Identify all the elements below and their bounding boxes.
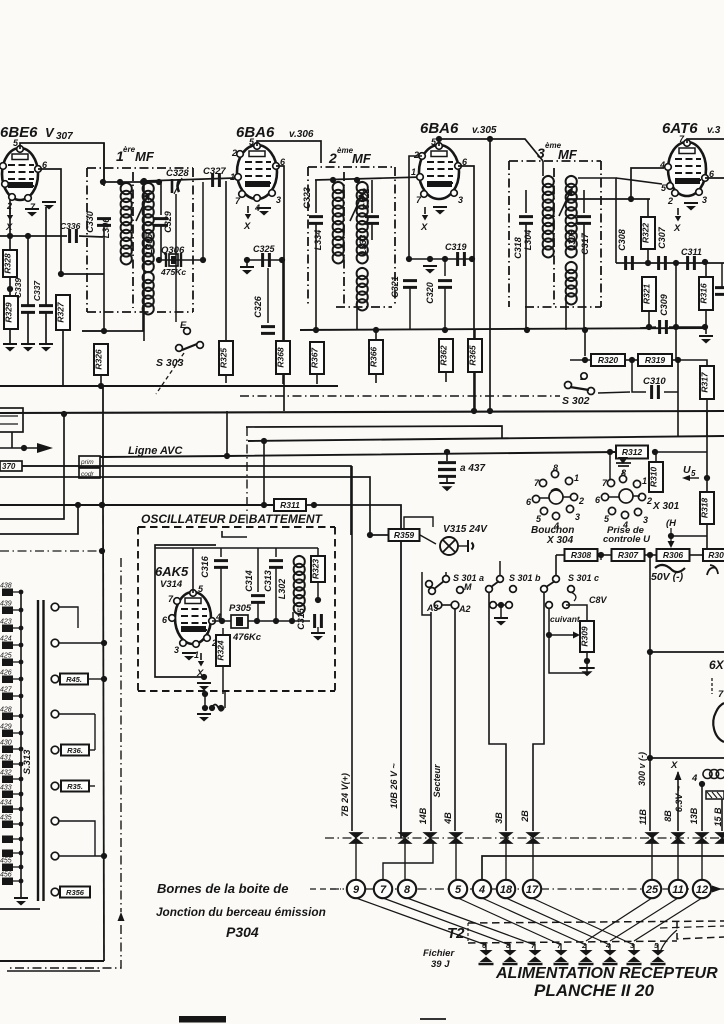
resistor R359 bbox=[389, 529, 420, 541]
AVC arrow bbox=[0, 447, 37, 449]
resistor R356 bbox=[60, 887, 90, 898]
squiggle right bbox=[707, 565, 718, 575]
resistor R322 bbox=[641, 217, 655, 249]
svg-text:V: V bbox=[45, 125, 55, 140]
svg-text:2: 2 bbox=[667, 196, 673, 206]
svg-text:(H: (H bbox=[666, 518, 677, 529]
corner bracket bbox=[222, 531, 247, 537]
svg-text:R367: R367 bbox=[310, 347, 320, 369]
svg-text:7B 24 V(+): 7B 24 V(+) bbox=[340, 773, 350, 817]
ground bbox=[3, 343, 17, 345]
bottom-left bracket bbox=[0, 960, 104, 962]
T2 pin 8 bbox=[504, 950, 517, 962]
ladder component 433 bbox=[2, 791, 13, 799]
svg-text:codr: codr bbox=[81, 471, 94, 478]
wire input y236 bbox=[0, 235, 67, 237]
svg-text:431: 431 bbox=[0, 755, 12, 762]
svg-text:14B: 14B bbox=[418, 807, 428, 824]
svg-text:1: 1 bbox=[574, 473, 579, 483]
svg-text:cuivant: cuivant bbox=[550, 614, 581, 624]
svg-text:X 301: X 301 bbox=[652, 501, 680, 512]
svg-text:3: 3 bbox=[702, 195, 707, 205]
svg-text:2: 2 bbox=[413, 150, 419, 160]
IF transformer MF3 shield box bbox=[508, 161, 510, 307]
terminal bowtie 14B bbox=[424, 833, 437, 844]
wire Prise feed bbox=[609, 519, 611, 549]
svg-text:A2: A2 bbox=[458, 604, 471, 614]
wire bus y438 bbox=[248, 436, 724, 441]
wire 11B vertical bbox=[649, 555, 651, 831]
ground bbox=[14, 897, 28, 899]
resistor R310 bbox=[649, 462, 663, 492]
ladder component 428 bbox=[2, 713, 13, 721]
svg-text:v.305: v.305 bbox=[472, 125, 497, 136]
capacitor C339 bbox=[27, 236, 29, 305]
connector right dashed box bbox=[677, 921, 724, 939]
svg-text:a 437: a 437 bbox=[460, 463, 485, 474]
svg-text:MF: MF bbox=[135, 149, 155, 164]
wire MF1 top inner bbox=[103, 181, 159, 183]
svg-text:controle U: controle U bbox=[603, 534, 651, 545]
MF1 lower winding bbox=[143, 272, 154, 314]
tube V305 pins bbox=[436, 143, 443, 150]
svg-text:R310: R310 bbox=[649, 467, 659, 488]
svg-text:X 304: X 304 bbox=[546, 535, 574, 546]
svg-text:R35.: R35. bbox=[67, 782, 83, 791]
MF2 tertiary winding bbox=[357, 268, 368, 310]
svg-text:6X: 6X bbox=[709, 658, 724, 672]
svg-text:3: 3 bbox=[537, 145, 545, 161]
svg-text:432: 432 bbox=[0, 770, 12, 777]
terminal bowtie 3B bbox=[500, 833, 513, 844]
svg-text:R311: R311 bbox=[280, 500, 300, 510]
svg-text:C317: C317 bbox=[580, 232, 590, 255]
MF3 secondary coil L303 bbox=[566, 176, 577, 257]
oscillator dashed box bbox=[137, 527, 139, 691]
svg-text:R366: R366 bbox=[369, 347, 379, 368]
wire 15B vertical bbox=[721, 799, 723, 831]
resistor R327 bbox=[56, 295, 70, 330]
svg-text:R320: R320 bbox=[598, 355, 619, 365]
svg-text:R322: R322 bbox=[641, 223, 651, 244]
svg-text:X: X bbox=[670, 760, 678, 771]
resistor R324 bbox=[216, 635, 230, 666]
ladder component 456 bbox=[2, 878, 13, 886]
S301a box outline bbox=[422, 572, 431, 615]
svg-text:R362: R362 bbox=[439, 345, 449, 366]
svg-text:3: 3 bbox=[575, 512, 580, 522]
svg-text:439: 439 bbox=[0, 601, 12, 608]
resistor R306 bbox=[657, 549, 690, 561]
svg-text:L303: L303 bbox=[567, 230, 577, 251]
wire 14B vertical bbox=[430, 612, 432, 831]
terminal circle 25 bbox=[643, 880, 661, 898]
wire 2B vertical bbox=[533, 593, 544, 831]
svg-text:X: X bbox=[673, 223, 681, 234]
dash-dot x247 bbox=[246, 427, 248, 527]
svg-text:433: 433 bbox=[0, 785, 12, 792]
left bus vertical x104 bbox=[102, 386, 104, 505]
wire R308 left feed bbox=[556, 554, 565, 556]
chassis X arrow bbox=[424, 207, 426, 214]
svg-text:R368: R368 bbox=[276, 347, 286, 368]
svg-text:MF: MF bbox=[558, 147, 578, 162]
svg-text:PLANCHE II 20: PLANCHE II 20 bbox=[534, 981, 655, 1000]
wire R309 bottom bbox=[549, 609, 578, 635]
wire left corner x64 bbox=[0, 414, 64, 519]
terminal circle 17 bbox=[523, 880, 541, 898]
terminal bowtie 11B bbox=[646, 833, 659, 844]
svg-text:C322: C322 bbox=[361, 188, 371, 210]
terminal bowtie 15B bbox=[716, 833, 724, 844]
chassis X arrow bbox=[9, 207, 11, 214]
svg-text:C319: C319 bbox=[445, 242, 467, 252]
wire MF3 secondary to 6AT6 bbox=[566, 198, 650, 200]
wire 7B vertical bbox=[351, 466, 353, 831]
svg-text:R321: R321 bbox=[642, 284, 652, 305]
terminal circle 4 bbox=[473, 880, 491, 898]
resistor R317 bbox=[700, 366, 714, 399]
ground bbox=[423, 265, 437, 267]
svg-text:Jonction du berceau émission: Jonction du berceau émission bbox=[156, 905, 326, 919]
svg-text:4: 4 bbox=[691, 773, 698, 784]
resistor R309 bbox=[580, 621, 594, 652]
svg-text:11B: 11B bbox=[638, 809, 648, 825]
svg-text:X: X bbox=[5, 222, 13, 233]
svg-text:6BE6: 6BE6 bbox=[0, 124, 38, 141]
ground bbox=[197, 713, 211, 715]
resistor R323 bbox=[311, 556, 325, 582]
resistor R318 bbox=[700, 492, 714, 524]
svg-text:438: 438 bbox=[0, 583, 12, 590]
ground bbox=[21, 343, 35, 345]
connector T2 dashed outline bbox=[468, 921, 724, 923]
resistor R45. bbox=[60, 674, 88, 685]
wire bornes dashes bbox=[310, 888, 341, 890]
svg-text:C321: C321 bbox=[390, 276, 400, 298]
chassis X arrow bbox=[677, 208, 679, 215]
connector bowtie row dash-dot bbox=[325, 837, 724, 839]
wire 13B vertical bbox=[701, 784, 703, 831]
svg-text:L302: L302 bbox=[277, 579, 287, 600]
IF transformer MF1 shield box bbox=[87, 167, 193, 169]
svg-text:L333: L333 bbox=[358, 235, 368, 256]
svg-text:13B: 13B bbox=[689, 807, 699, 824]
wire V307 pin6 down bbox=[38, 169, 61, 274]
terminal bowtie 10B bbox=[399, 833, 412, 844]
svg-text:R45.: R45. bbox=[66, 675, 82, 684]
left edge component box bbox=[0, 408, 23, 432]
svg-text:2: 2 bbox=[6, 201, 12, 211]
shield dash-dot vertical bbox=[120, 558, 122, 912]
ladder component 427 bbox=[2, 693, 13, 701]
svg-text:6.3V ~: 6.3V ~ bbox=[674, 785, 684, 812]
wire long bus y386 bbox=[0, 385, 338, 387]
wire R312 branch bbox=[607, 449, 613, 455]
capacitor a437 bbox=[444, 449, 450, 455]
wire bowtie-to-circle stubs bbox=[355, 843, 357, 880]
svg-text:476Kc: 476Kc bbox=[232, 632, 262, 643]
resistor R326 bbox=[94, 344, 108, 375]
chassis X arrow bbox=[200, 653, 202, 660]
svg-text:12: 12 bbox=[696, 884, 708, 896]
resistor R367 bbox=[310, 342, 324, 374]
svg-text:OSCILLATEUR DE BATTEMENT: OSCILLATEUR DE BATTEMENT bbox=[141, 512, 324, 526]
svg-text:ère: ère bbox=[123, 145, 136, 154]
resistor R309 bbox=[566, 605, 587, 621]
svg-text:R324: R324 bbox=[216, 640, 226, 661]
wire dash-dot chassis y396 bbox=[240, 395, 560, 397]
resistor R321 bbox=[642, 277, 656, 311]
wire circle4 riser and y856 line bbox=[482, 856, 724, 880]
MF1 secondary coil L305 bbox=[143, 183, 154, 272]
svg-text:L304: L304 bbox=[523, 230, 533, 251]
svg-text:R36.: R36. bbox=[67, 746, 83, 755]
terminal circle 8 bbox=[398, 880, 416, 898]
svg-text:307: 307 bbox=[56, 131, 73, 142]
ladder component 430 bbox=[2, 746, 13, 754]
svg-text:3: 3 bbox=[174, 645, 179, 655]
T2 pin 5 bbox=[652, 950, 665, 962]
svg-text:7: 7 bbox=[718, 689, 724, 700]
resistor R362 bbox=[439, 339, 453, 372]
ground bbox=[684, 202, 698, 204]
wire V306 pin5 top bbox=[257, 141, 321, 163]
svg-text:456: 456 bbox=[0, 872, 12, 879]
tube V314 6AK5 envelope bbox=[175, 592, 211, 644]
svg-text:R319: R319 bbox=[645, 355, 666, 365]
svg-text:6AK5: 6AK5 bbox=[155, 564, 189, 579]
svg-text:1: 1 bbox=[642, 476, 647, 486]
wire MF3 to diode bbox=[578, 178, 616, 263]
resistor R311 bbox=[274, 499, 306, 511]
svg-text:C309: C309 bbox=[659, 294, 669, 316]
svg-text:4: 4 bbox=[478, 884, 485, 896]
svg-text:430: 430 bbox=[0, 740, 12, 747]
svg-text:425: 425 bbox=[0, 653, 12, 660]
resistor R366 bbox=[369, 340, 383, 374]
terminal bowtie 4B bbox=[450, 833, 463, 844]
T2 pin 7 bbox=[555, 950, 568, 962]
ground bbox=[433, 206, 447, 208]
tube 6AT6 pins bbox=[684, 140, 691, 147]
resistor R328 branch bbox=[9, 236, 11, 250]
oscillator output curl bbox=[202, 691, 208, 697]
svg-text:Secteur: Secteur bbox=[432, 764, 442, 798]
resistor R359 with arrow bbox=[403, 521, 405, 529]
ladder component 429 bbox=[2, 730, 13, 738]
T2 pin 7 bbox=[529, 950, 542, 962]
svg-text:R312: R312 bbox=[622, 447, 643, 457]
svg-text:prim: prim bbox=[80, 459, 94, 466]
MF3 tertiary winding bbox=[566, 262, 577, 304]
svg-text:429: 429 bbox=[0, 724, 12, 731]
S313 wiring bbox=[59, 607, 78, 628]
resistor R325 bbox=[219, 341, 233, 375]
ground bbox=[579, 667, 594, 669]
ladder component row bbox=[2, 850, 13, 858]
svg-text:C310: C310 bbox=[643, 376, 666, 387]
MF2 secondary coil L333 bbox=[357, 182, 368, 263]
svg-text:R356: R356 bbox=[66, 888, 85, 897]
wire bus y330 bbox=[82, 330, 144, 332]
svg-text:2: 2 bbox=[231, 148, 237, 158]
resistor R327 bbox=[61, 273, 104, 275]
svg-text:S 302: S 302 bbox=[562, 395, 590, 407]
svg-text:427: 427 bbox=[0, 687, 13, 694]
svg-text:S 301 b: S 301 b bbox=[509, 573, 541, 583]
svg-text:300 v (-): 300 v (-) bbox=[637, 752, 647, 786]
transformer T winding bbox=[703, 769, 724, 778]
svg-text:C325: C325 bbox=[253, 244, 276, 254]
svg-text:R317: R317 bbox=[700, 371, 710, 393]
T2 pin 2 bbox=[580, 950, 593, 962]
svg-text:426: 426 bbox=[0, 670, 12, 677]
resistor R368 bbox=[276, 341, 290, 374]
resistor R36. bbox=[61, 745, 89, 756]
svg-text:R308: R308 bbox=[571, 550, 592, 560]
wire heater line B bbox=[0, 477, 389, 535]
terminal circle 9 bbox=[347, 880, 365, 898]
ladder component 434 bbox=[2, 806, 13, 814]
ground bbox=[39, 343, 53, 345]
connector Bouchon X304 bbox=[539, 479, 546, 486]
svg-text:2: 2 bbox=[578, 496, 584, 506]
contacts A3 A2 bbox=[434, 601, 442, 609]
svg-text:17: 17 bbox=[526, 884, 539, 896]
svg-text:C314: C314 bbox=[244, 570, 254, 592]
svg-text:424: 424 bbox=[0, 636, 12, 643]
resistor R320 bbox=[591, 354, 625, 366]
svg-text:8: 8 bbox=[404, 884, 411, 896]
svg-text:5: 5 bbox=[691, 469, 696, 478]
wire MF2 grid line bbox=[315, 177, 422, 180]
svg-text:M: M bbox=[464, 582, 472, 592]
wire diode line y263 bbox=[616, 262, 724, 264]
svg-text:P305: P305 bbox=[229, 603, 252, 614]
wire 6AT6 pin7 top bbox=[687, 139, 724, 143]
ladder component 435 bbox=[2, 821, 13, 829]
svg-text:C337: C337 bbox=[32, 280, 42, 302]
svg-text:R316: R316 bbox=[699, 283, 709, 304]
dash-dot chassis left y551 bbox=[0, 550, 100, 552]
svg-text:V315 24V: V315 24V bbox=[443, 524, 488, 535]
wire AVC line bbox=[100, 452, 617, 457]
wire 6AT6 pin6 right bbox=[705, 177, 724, 179]
terminal circle 18 bbox=[497, 880, 515, 898]
terminal circles dash-dot bbox=[330, 888, 724, 890]
svg-text:L334: L334 bbox=[313, 230, 323, 251]
terminal bowtie 2B bbox=[527, 833, 540, 844]
svg-text:C316: C316 bbox=[200, 555, 210, 578]
svg-text:10B 26 V ~: 10B 26 V ~ bbox=[389, 763, 399, 809]
svg-text:455: 455 bbox=[0, 858, 12, 865]
svg-text:C328: C328 bbox=[166, 168, 189, 179]
wire 300V branches bbox=[650, 651, 724, 653]
wire 6AK5 pin5 up bbox=[192, 548, 194, 593]
svg-text:R365: R365 bbox=[468, 345, 478, 366]
svg-text:v.306: v.306 bbox=[289, 129, 314, 140]
svg-text:Fichier: Fichier bbox=[423, 948, 455, 959]
connector Prise X301 bbox=[607, 479, 614, 486]
svg-text:C311: C311 bbox=[681, 247, 702, 257]
S313 contacts bbox=[51, 603, 59, 611]
svg-text:C339: C339 bbox=[13, 278, 23, 299]
svg-text:R323: R323 bbox=[311, 559, 321, 580]
wire y259 node bbox=[409, 258, 472, 260]
IF transformer MF2 shield box bbox=[307, 167, 309, 307]
svg-text:15 B: 15 B bbox=[713, 807, 723, 827]
wire heater line A bbox=[22, 466, 351, 535]
ground bbox=[494, 617, 508, 619]
wire R317 feed bbox=[678, 360, 707, 366]
svg-text:6BA6: 6BA6 bbox=[236, 124, 275, 141]
ground bbox=[257, 207, 271, 209]
terminal circle 12 bbox=[693, 880, 711, 898]
svg-text:8: 8 bbox=[553, 463, 558, 473]
wire right connector curl bbox=[660, 930, 677, 952]
svg-text:C323: C323 bbox=[302, 187, 312, 209]
wire 10B vertical bbox=[401, 505, 403, 831]
resistor R319 bbox=[638, 354, 672, 366]
svg-text:5: 5 bbox=[455, 884, 462, 896]
svg-text:1: 1 bbox=[194, 650, 199, 660]
ladder component 425 bbox=[2, 659, 13, 667]
svg-text:R359: R359 bbox=[394, 530, 415, 540]
svg-text:A3: A3 bbox=[426, 603, 439, 613]
svg-text:4: 4 bbox=[659, 160, 665, 170]
svg-text:V314: V314 bbox=[160, 579, 183, 590]
svg-text:R306: R306 bbox=[663, 550, 684, 560]
svg-text:370: 370 bbox=[2, 462, 16, 471]
svg-text:C318: C318 bbox=[513, 237, 523, 259]
ground bbox=[240, 266, 254, 268]
MF1 primary coil L306 bbox=[103, 143, 105, 186]
wire x707 vertical bbox=[706, 411, 708, 492]
svg-text:3: 3 bbox=[276, 195, 281, 205]
svg-text:25: 25 bbox=[645, 884, 659, 896]
capacitor C337 bbox=[45, 207, 47, 305]
ground bbox=[439, 482, 454, 484]
svg-text:C327: C327 bbox=[203, 166, 226, 177]
diagonal links circles to T2 bbox=[356, 898, 486, 945]
svg-text:7: 7 bbox=[380, 884, 387, 896]
svg-text:2: 2 bbox=[646, 496, 652, 506]
tube V305 6BA6 envelope bbox=[419, 145, 459, 199]
svg-text:6BA6: 6BA6 bbox=[420, 120, 459, 137]
svg-text:428: 428 bbox=[0, 707, 12, 714]
tube V306 6BA6 envelope bbox=[237, 145, 277, 199]
switch S302 bbox=[565, 382, 572, 389]
svg-text:475Kc: 475Kc bbox=[160, 267, 186, 277]
ladder component 424 bbox=[2, 642, 13, 650]
wire bus y426 segment bbox=[246, 426, 502, 438]
svg-text:X: X bbox=[420, 222, 428, 233]
tube V307 pins bbox=[17, 146, 24, 153]
svg-text:S 301 c: S 301 c bbox=[568, 573, 599, 583]
svg-text:S.313: S.313 bbox=[22, 749, 33, 775]
ladder bus bbox=[20, 592, 22, 897]
MF2 primary coil L334 bbox=[333, 182, 344, 263]
svg-text:9: 9 bbox=[353, 884, 360, 896]
ladder component 431 bbox=[2, 761, 13, 769]
svg-text:Bornes de la boite de: Bornes de la boite de bbox=[157, 881, 288, 896]
resistor R316 bbox=[699, 277, 713, 310]
svg-text:v.3: v.3 bbox=[707, 125, 721, 136]
svg-text:MF: MF bbox=[352, 151, 372, 166]
svg-text:1: 1 bbox=[411, 167, 416, 177]
svg-text:R328: R328 bbox=[3, 253, 13, 274]
